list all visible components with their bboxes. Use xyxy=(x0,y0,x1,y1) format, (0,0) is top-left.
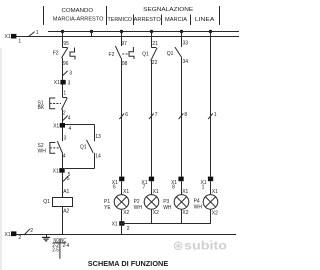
svg-text:5: 5 xyxy=(67,176,70,182)
svg-text:6: 6 xyxy=(113,184,116,190)
watermark subito xyxy=(174,241,227,253)
terminal X1:6 xyxy=(112,177,125,191)
svg-text:4: 4 xyxy=(63,154,66,160)
svg-text:X2: X2 xyxy=(182,210,188,216)
svg-text:WH: WH xyxy=(38,148,47,154)
svg-text:X1: X1 xyxy=(4,232,10,238)
junction dots on upper rail xyxy=(61,30,212,33)
svg-text:3: 3 xyxy=(69,71,72,77)
wire: lower supply rail from X1:1 xyxy=(16,36,239,38)
svg-text:YE: YE xyxy=(104,205,111,211)
control column: F2 thermal NC contact 95-96 xyxy=(53,32,75,81)
contactor Q1 auxiliary NO contact 13-14 (self hold) xyxy=(65,125,101,169)
wire number 7 marker xyxy=(149,112,158,119)
terminal X1:2 (left) xyxy=(4,231,21,241)
svg-text:33: 33 xyxy=(183,40,189,46)
svg-text:X1: X1 xyxy=(53,123,59,129)
svg-text:X2: X2 xyxy=(212,210,218,216)
svg-text:X1: X1 xyxy=(4,34,10,40)
svg-text:7: 7 xyxy=(143,184,146,190)
svg-text:X1: X1 xyxy=(212,189,218,195)
svg-text:WH: WH xyxy=(163,205,172,211)
svg-text:A2: A2 xyxy=(63,208,69,214)
svg-text:2: 2 xyxy=(18,235,21,241)
wire number 5 marker xyxy=(63,176,70,182)
terminal X1:7 xyxy=(141,177,154,191)
wire: stub joining rails at x=91 xyxy=(91,32,93,37)
svg-text:14: 14 xyxy=(95,154,101,160)
wire number 6 marker xyxy=(119,112,128,119)
svg-text:X1: X1 xyxy=(182,189,188,195)
svg-text:13: 13 xyxy=(95,134,101,140)
svg-text:MARCIA: MARCIA xyxy=(165,17,187,23)
svg-text:96: 96 xyxy=(63,61,69,67)
terminal X1:8 xyxy=(171,177,184,191)
wire number 4 marker xyxy=(63,115,71,121)
svg-text:subito: subito xyxy=(184,241,227,253)
svg-text:X1: X1 xyxy=(112,222,118,228)
signal column 2: Q1 NC contact 21-22 (ARRESTO) xyxy=(142,32,158,177)
wire number 3 marker xyxy=(63,71,72,77)
svg-text:6: 6 xyxy=(125,112,128,118)
svg-text:Q1: Q1 xyxy=(80,144,87,150)
wire: lamp return rail xyxy=(119,223,211,225)
svg-text:WH: WH xyxy=(194,204,203,210)
svg-text:95: 95 xyxy=(63,41,69,47)
signal column 4: direct line (LINEA) xyxy=(210,32,212,177)
scan edge artifact xyxy=(0,48,2,270)
svg-text:ARRESTO: ARRESTO xyxy=(134,17,162,23)
svg-text:2-5: 2-5 xyxy=(52,247,59,253)
terminal X1:1 (lamp) xyxy=(200,177,213,191)
svg-text:21: 21 xyxy=(152,41,158,47)
svg-text:X1: X1 xyxy=(53,168,59,174)
svg-text:BK: BK xyxy=(38,105,45,111)
pushbutton S1 (NC, stop, black) pins 1-2 xyxy=(38,85,68,124)
svg-text:1: 1 xyxy=(18,38,21,44)
wire number 2 marker xyxy=(24,228,33,235)
terminal X1:4 xyxy=(53,123,71,132)
svg-text:X1: X1 xyxy=(54,80,60,86)
svg-text:WH: WH xyxy=(134,205,143,211)
wire: upper supply rail xyxy=(48,31,239,33)
svg-text:X2: X2 xyxy=(153,210,159,216)
svg-text:X1: X1 xyxy=(123,189,129,195)
svg-text:2: 2 xyxy=(63,110,66,116)
svg-text:1: 1 xyxy=(36,30,39,36)
svg-text:F2: F2 xyxy=(109,52,115,58)
svg-text:2: 2 xyxy=(30,228,33,234)
terminal X1:3 xyxy=(54,80,71,87)
svg-text:34: 34 xyxy=(183,59,189,65)
svg-text:SCHEMA DI FUNZIONE: SCHEMA DI FUNZIONE xyxy=(88,259,169,268)
svg-text:98: 98 xyxy=(122,61,128,67)
svg-text:4: 4 xyxy=(69,126,72,132)
svg-text:3: 3 xyxy=(64,136,67,142)
svg-text:97: 97 xyxy=(121,41,127,47)
signal column 1: F2 NO contact 97-98 (TERMICO) xyxy=(109,32,134,177)
ground (earth) symbol xyxy=(42,235,50,241)
svg-text:A1: A1 xyxy=(63,189,69,195)
contactor coil Q1 A1-A2 xyxy=(43,173,72,235)
svg-text:1: 1 xyxy=(214,112,217,118)
svg-text:Q1: Q1 xyxy=(43,199,50,205)
svg-text:4: 4 xyxy=(68,115,71,121)
svg-text:2: 2 xyxy=(127,226,130,232)
lamp P3 white (MARCIA) xyxy=(163,181,189,223)
lamp P4 white (LINEA) xyxy=(194,181,219,223)
svg-text:8: 8 xyxy=(184,112,187,118)
wire: branch to Q1 hold contact xyxy=(65,124,95,126)
lamp P2 white (ARRESTO) xyxy=(134,181,160,223)
svg-text:1: 1 xyxy=(202,184,205,190)
svg-text:F2: F2 xyxy=(53,51,59,57)
terminal X1:1 xyxy=(4,34,21,44)
svg-text:MARCIA-ARRESTO: MARCIA-ARRESTO xyxy=(53,17,104,23)
pushbutton S2 (NO, start, white) pins 3-4 xyxy=(38,128,67,169)
svg-text:TERMICO: TERMICO xyxy=(108,17,133,23)
svg-text:Q1: Q1 xyxy=(167,51,174,57)
svg-text:Q1: Q1 xyxy=(142,51,149,57)
wire: bottom neutral rail xyxy=(16,234,236,236)
lamp P1 yellow (TERMICO) xyxy=(104,181,130,221)
terminal X1:5 xyxy=(53,168,71,178)
svg-text:LINEA: LINEA xyxy=(195,17,215,23)
header divider ticks xyxy=(44,6,220,25)
header group label COMANDO xyxy=(53,8,104,22)
svg-text:1: 1 xyxy=(63,91,66,97)
signal column 3: Q1 NO contact 33-34 (MARCIA) xyxy=(167,32,189,177)
svg-text:22: 22 xyxy=(152,60,158,66)
svg-text:2-4: 2-4 xyxy=(63,243,70,249)
Q1 contact cross reference table NO/NC xyxy=(52,238,69,259)
wire number 1 marker xyxy=(29,30,39,36)
header group label SEGNALAZIONE xyxy=(108,7,215,23)
svg-text:3: 3 xyxy=(68,81,71,87)
svg-text:7: 7 xyxy=(155,112,158,118)
svg-text:X1: X1 xyxy=(153,189,159,195)
wire number 1 marker xyxy=(208,112,217,119)
svg-text:COMANDO: COMANDO xyxy=(62,8,94,14)
terminal X1:2 (lamp rail) xyxy=(112,221,130,234)
svg-text:X2: X2 xyxy=(123,210,129,216)
svg-text:SEGNALAZIONE: SEGNALAZIONE xyxy=(143,7,193,13)
svg-text:8: 8 xyxy=(172,184,175,190)
wire number 8 marker xyxy=(179,112,188,119)
